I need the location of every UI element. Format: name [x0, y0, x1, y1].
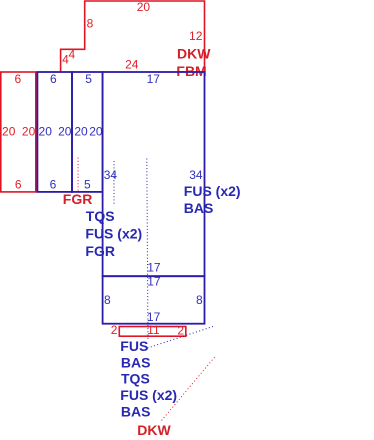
- svg-text:FUS (x2): FUS (x2): [184, 183, 241, 199]
- svg-text:6: 6: [50, 177, 57, 191]
- svg-text:4: 4: [62, 52, 69, 66]
- svg-text:BAS: BAS: [184, 200, 214, 216]
- svg-text:2: 2: [111, 323, 118, 337]
- svg-text:8: 8: [196, 293, 203, 307]
- svg-text:24: 24: [125, 58, 139, 72]
- big blue box: [103, 72, 205, 276]
- svg-text:20: 20: [58, 125, 72, 139]
- svg-text:8: 8: [87, 17, 94, 31]
- svg-text:17: 17: [147, 310, 161, 324]
- dotted blue vertical short: [113, 161, 115, 206]
- svg-text:2: 2: [177, 323, 184, 337]
- red left rectangle: [1, 72, 36, 192]
- svg-text:20: 20: [74, 125, 88, 139]
- svg-text:DKW: DKW: [177, 45, 211, 61]
- svg-text:17: 17: [147, 275, 161, 289]
- svg-text:FBM: FBM: [176, 63, 206, 79]
- svg-text:FUS (x2): FUS (x2): [120, 387, 177, 403]
- svg-text:TQS: TQS: [86, 208, 115, 224]
- dotted red diagonal leader: [162, 356, 217, 421]
- svg-text:DKW: DKW: [137, 422, 171, 438]
- svg-text:6: 6: [15, 72, 22, 86]
- svg-text:12: 12: [189, 29, 203, 43]
- svg-text:FGR: FGR: [85, 243, 115, 259]
- red bottom rectangle: [119, 327, 186, 337]
- svg-text:BAS: BAS: [121, 403, 151, 419]
- svg-text:FGR: FGR: [63, 191, 93, 207]
- svg-text:20: 20: [89, 125, 103, 139]
- svg-text:5: 5: [84, 178, 91, 192]
- svg-text:17: 17: [147, 261, 161, 275]
- svg-text:20: 20: [137, 0, 151, 14]
- blue cell 2: [72, 72, 103, 192]
- svg-text:34: 34: [189, 168, 203, 182]
- svg-text:34: 34: [104, 168, 118, 182]
- svg-text:11: 11: [147, 323, 160, 337]
- lower blue box: [103, 276, 205, 324]
- svg-text:20: 20: [39, 125, 53, 139]
- svg-text:FUS: FUS: [120, 338, 148, 354]
- dotted blue diagonal leader: [148, 326, 215, 348]
- dotted red vertical: [77, 158, 79, 192]
- blue cell 1: [37, 72, 72, 192]
- svg-text:6: 6: [15, 177, 22, 191]
- dotted blue vertical long: [147, 159, 148, 341]
- svg-text:4: 4: [69, 48, 76, 62]
- svg-text:8: 8: [104, 293, 111, 307]
- svg-text:6: 6: [50, 72, 57, 86]
- svg-text:TQS: TQS: [121, 371, 150, 387]
- svg-text:17: 17: [147, 72, 161, 86]
- svg-text:20: 20: [22, 125, 36, 139]
- svg-text:5: 5: [85, 72, 92, 86]
- red top outline (stepped panel): [61, 1, 205, 72]
- svg-text:20: 20: [2, 125, 16, 139]
- svg-text:BAS: BAS: [121, 354, 151, 370]
- svg-text:FUS (x2): FUS (x2): [85, 226, 142, 242]
